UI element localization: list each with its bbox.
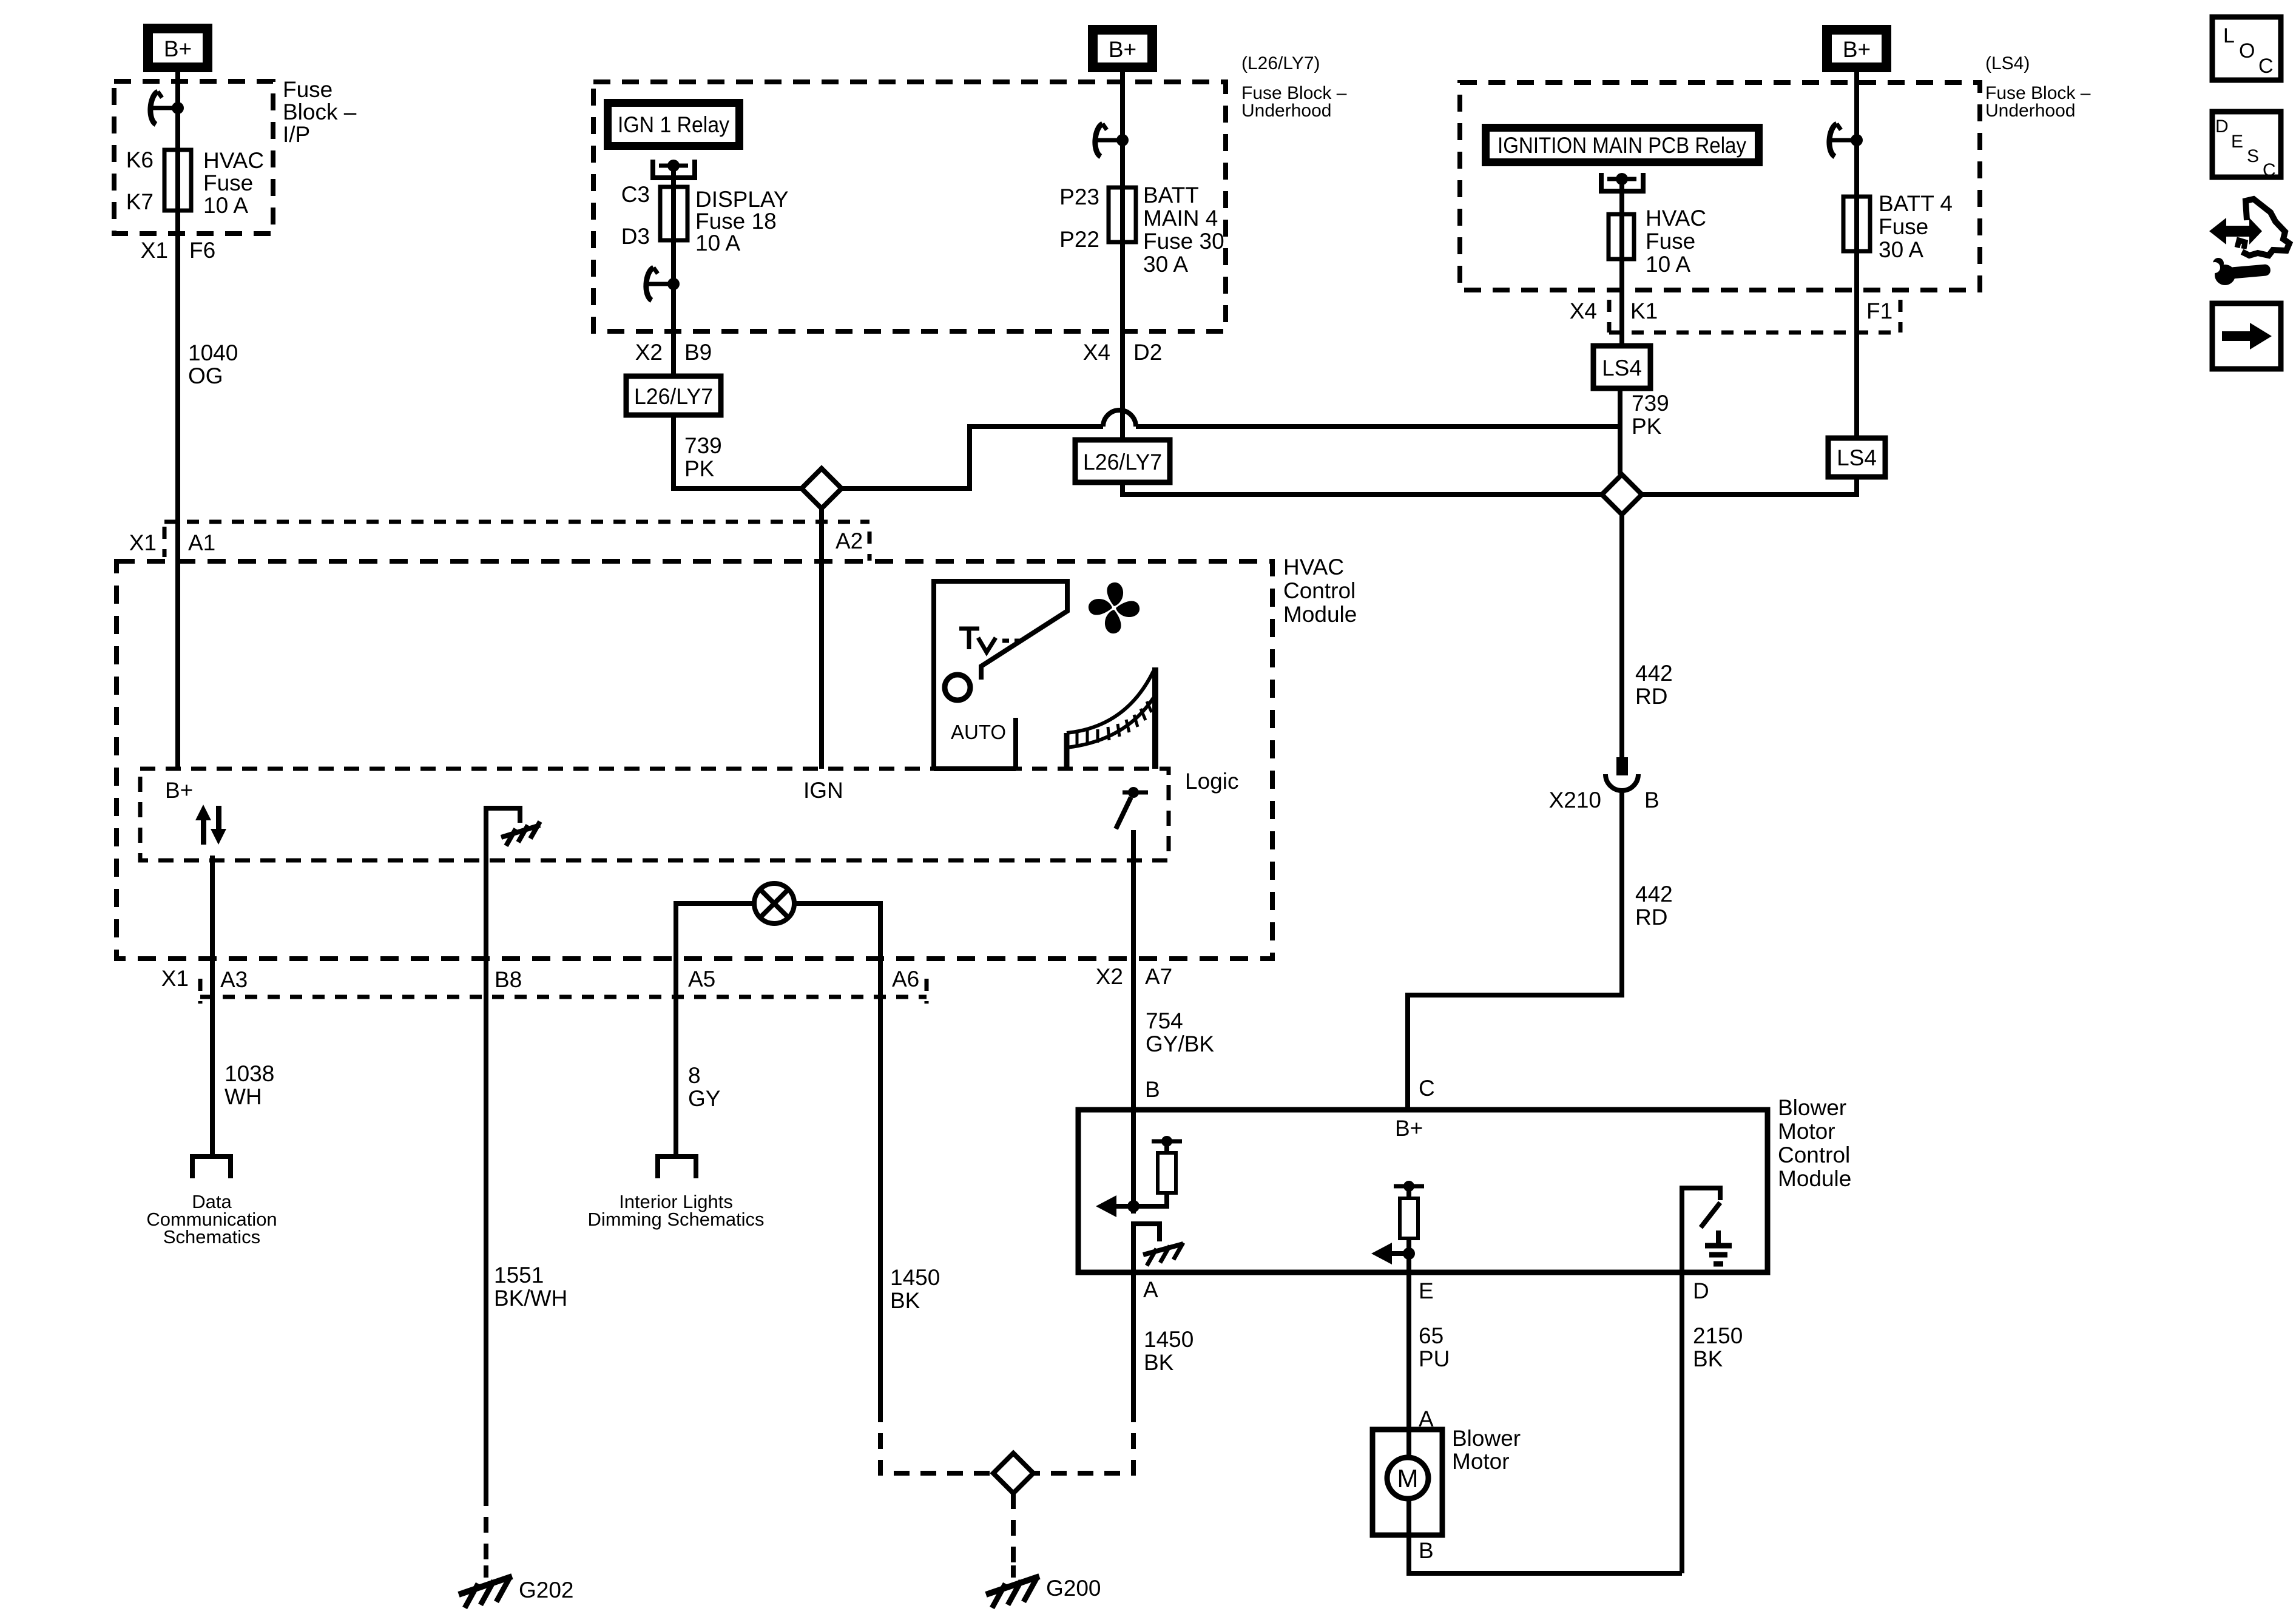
label (L26/LY7) Fuse Block - Underhood: [1241, 53, 1347, 121]
svg-text:L: L: [2223, 24, 2235, 47]
svg-text:A: A: [1143, 1277, 1158, 1302]
svg-text:A2: A2: [836, 528, 863, 553]
svg-text:Fuse: Fuse: [283, 77, 333, 102]
label 8 GY: [688, 1063, 720, 1111]
svg-text:Module: Module: [1778, 1166, 1851, 1191]
svg-text:Logic: Logic: [1185, 769, 1238, 794]
pin E internal: control arrow: [1371, 1243, 1415, 1264]
label 442 RD (lower): [1635, 882, 1673, 930]
label 1450 BK (pin A): [1144, 1327, 1194, 1375]
splice diamond (left): [802, 468, 842, 508]
terminal clip symbol below DISPLAY fuse: [646, 268, 680, 300]
label BATT 4 Fuse 30 A: [1879, 191, 1953, 262]
svg-text:E: E: [1419, 1278, 1434, 1303]
svg-text:1450: 1450: [890, 1265, 940, 1290]
svg-text:(LS4): (LS4): [1985, 53, 2030, 73]
svg-text:BK/WH: BK/WH: [494, 1286, 567, 1311]
fuse block underhood dashed box (LS4): [1460, 83, 1980, 290]
svg-text:Motor: Motor: [1452, 1449, 1510, 1474]
svg-text:A5: A5: [688, 967, 715, 991]
svg-text:D2: D2: [1133, 340, 1162, 365]
label Blower Motor Control Module: [1778, 1095, 1851, 1191]
svg-text:D3: D3: [621, 224, 650, 249]
pin B internal: control arrow: [1096, 1195, 1140, 1217]
HVAC control module dashed box: [116, 561, 1272, 959]
wire B8 dashed segment to ground: [484, 1490, 488, 1565]
svg-text:B+: B+: [1109, 37, 1136, 62]
svg-text:X1: X1: [129, 530, 157, 555]
engine code box LS4 (left, K1 wire): [1593, 346, 1650, 388]
wire A7 logic to module edge: [1131, 830, 1136, 1110]
svg-text:PK: PK: [1632, 414, 1662, 439]
wire B+ right down through BATT 4 fuse (F1): [1854, 72, 1859, 438]
power symbol B+ (left, I/P fuse block): [143, 24, 212, 72]
svg-text:MAIN 4: MAIN 4: [1143, 206, 1218, 231]
backlight lamp circuit wire (A5 side): [676, 903, 755, 959]
relay IGN1 output bracket and contact: [653, 160, 695, 187]
svg-text:B: B: [1644, 788, 1660, 812]
svg-text:1038: 1038: [225, 1061, 274, 1086]
off-page bracket (interior lights): [658, 1156, 696, 1178]
relay PCB output bracket and contact: [1601, 173, 1643, 214]
label HVAC Fuse 10 A (right block): [1646, 206, 1706, 277]
svg-text:A6: A6: [892, 967, 919, 991]
svg-text:X2: X2: [1096, 964, 1123, 989]
svg-text:Control: Control: [1283, 578, 1356, 603]
svg-text:Fuse 18: Fuse 18: [695, 209, 777, 234]
svg-text:G200: G200: [1046, 1576, 1101, 1601]
svg-text:HVAC: HVAC: [1646, 206, 1706, 231]
svg-text:754: 754: [1146, 1008, 1183, 1033]
wire A6 dashed segment to splice: [880, 1406, 993, 1473]
relay IGNITION MAIN PCB Relay (bold box): [1482, 124, 1763, 166]
mode selector pictograph: [934, 581, 1067, 769]
engine code box L26/LY7 (right): [1075, 440, 1170, 482]
svg-text:HVAC: HVAC: [203, 148, 264, 173]
fuse K6/K7 HVAC Fuse 10A: [164, 150, 191, 211]
svg-text:WH: WH: [225, 1084, 262, 1109]
svg-text:10 A: 10 A: [203, 193, 248, 218]
wire pin D down (2150 BK): [1680, 1270, 1684, 1573]
svg-text:GY: GY: [688, 1086, 720, 1111]
svg-text:K7: K7: [126, 189, 154, 214]
pin C internal: B+ feed wire: [1405, 1107, 1410, 1112]
ground jog symbol inside module (B8): [486, 808, 540, 959]
wire 442 RD upper segment: [1619, 515, 1624, 758]
svg-text:B9: B9: [684, 340, 712, 365]
svg-text:IGNITION MAIN PCB Relay: IGNITION MAIN PCB Relay: [1497, 133, 1746, 158]
svg-text:F1: F1: [1866, 299, 1893, 323]
svg-text:Motor: Motor: [1778, 1119, 1835, 1144]
wire A2 splice to IGN input: [819, 508, 824, 769]
label 65 PU: [1419, 1323, 1450, 1371]
terminal clip symbol in I/P fuse block: [150, 92, 184, 124]
pin E internal: control resistor: [1394, 1181, 1424, 1270]
wire hop over D2 wire: [1103, 410, 1136, 427]
svg-text:RD: RD: [1635, 905, 1667, 930]
label 1450 BK (A6): [890, 1265, 940, 1313]
label DISPLAY Fuse 18 10 A: [695, 187, 789, 255]
svg-text:A7: A7: [1145, 964, 1172, 989]
svg-text:PK: PK: [684, 456, 715, 481]
svg-text:X1: X1: [161, 966, 189, 991]
label 754 GY/BK: [1146, 1008, 1214, 1056]
svg-text:1551: 1551: [494, 1263, 544, 1288]
svg-text:PU: PU: [1419, 1346, 1450, 1371]
svg-text:Dimming Schematics: Dimming Schematics: [587, 1209, 764, 1230]
connector label X2 | B9: [635, 340, 712, 365]
svg-text:B+: B+: [1395, 1116, 1423, 1141]
svg-text:BK: BK: [1144, 1350, 1174, 1375]
svg-text:X4: X4: [1570, 299, 1597, 323]
svg-text:65: 65: [1419, 1323, 1443, 1348]
icon LOC box (top right): [2212, 17, 2281, 80]
pin B internal: wire to junction: [1131, 1110, 1136, 1214]
svg-text:739: 739: [1632, 391, 1669, 416]
svg-text:LS4: LS4: [1602, 356, 1642, 380]
engine code box LS4 (right, F1 wire): [1828, 438, 1885, 477]
relay IGN 1 Relay (bold box): [604, 99, 743, 150]
svg-text:10 A: 10 A: [695, 231, 740, 255]
connector labels X4 | K1 and F1: [1570, 299, 1893, 323]
wire A5 to interior lights dimming (8 GY): [674, 959, 678, 1156]
wire splice to step-up run toward K1: [842, 427, 1103, 488]
backlight lamp circuit wire (A6 side): [794, 903, 880, 959]
svg-text:D: D: [1693, 1278, 1709, 1303]
svg-text:2150: 2150: [1693, 1323, 1743, 1348]
svg-text:8: 8: [688, 1063, 701, 1088]
svg-text:L26/LY7: L26/LY7: [634, 384, 713, 409]
svg-text:30 A: 30 A: [1879, 237, 1923, 262]
svg-text:IGN 1 Relay: IGN 1 Relay: [618, 112, 729, 137]
wire blower motor B to pin D return: [1409, 1535, 1682, 1573]
label Fuse Block - I/P: [283, 77, 357, 147]
svg-text:Fuse: Fuse: [203, 170, 253, 195]
svg-text:10 A: 10 A: [1646, 252, 1690, 277]
svg-text:C: C: [2263, 160, 2276, 180]
pin B internal: sense resistor: [1133, 1136, 1182, 1206]
svg-text:RD: RD: [1635, 684, 1667, 709]
blower motor control module box: [1078, 1110, 1768, 1272]
label 2150 BK: [1693, 1323, 1743, 1371]
ground G202: [459, 1565, 512, 1608]
wire A3 to data link (1038 WH): [210, 959, 215, 1156]
wire 442 RD lower segment to pin C: [1408, 791, 1622, 1110]
svg-text:BK: BK: [1693, 1346, 1723, 1371]
svg-text:K1: K1: [1630, 299, 1658, 323]
wire through HVAC fuse to block edge: [1619, 214, 1624, 346]
svg-text:A1: A1: [188, 530, 215, 555]
splice diamond (ground G200): [993, 1453, 1033, 1493]
connector X4 dotted bracket row: [1609, 300, 1900, 333]
svg-text:F6: F6: [189, 238, 215, 263]
wire hop to K1 junction corner: [1136, 388, 1620, 427]
svg-text:Underhood: Underhood: [1241, 101, 1331, 121]
svg-text:HVAC: HVAC: [1283, 555, 1344, 579]
svg-text:C3: C3: [621, 182, 650, 207]
label 442 RD (upper): [1635, 661, 1673, 709]
svg-text:X4: X4: [1083, 340, 1110, 365]
svg-text:BATT: BATT: [1143, 183, 1199, 208]
data bus up/down arrows symbol: [195, 805, 226, 845]
label Blower Motor: [1452, 1426, 1521, 1474]
svg-text:B: B: [1145, 1077, 1160, 1102]
svg-text:C: C: [2258, 55, 2274, 78]
wire from L26/LY7 box to splice (739 PK): [674, 415, 802, 488]
splice diamond (right): [1602, 474, 1642, 515]
backlight lamp symbol: [754, 883, 794, 923]
fuse P23/P22 BATT MAIN 4 Fuse 30 30A: [1109, 187, 1136, 242]
wire through DISPLAY fuse down to clip: [671, 187, 676, 376]
dashed wire from blower module pin A to splice and splice to ground: [1013, 1406, 1133, 1565]
inline connector X210 pin B: [1606, 757, 1638, 791]
wire pin E to blower motor (65 PU): [1406, 1270, 1411, 1430]
svg-text:K6: K6: [126, 147, 154, 172]
svg-text:BATT 4: BATT 4: [1879, 191, 1953, 216]
svg-text:BK: BK: [890, 1288, 920, 1313]
wire A6 to splice (1450 BK): [878, 959, 883, 1406]
svg-text:Fuse: Fuse: [1646, 229, 1695, 254]
connector row X1 / A1 / A2 (dotted): [164, 522, 869, 561]
wire K1 LS4 box to splice diamond right: [1618, 388, 1622, 474]
svg-text:DISPLAY: DISPLAY: [695, 187, 789, 212]
label BATT MAIN 4 Fuse 30 30 A: [1143, 183, 1224, 277]
terminal clip symbol on right B+ wire: [1829, 124, 1863, 157]
label Interior Lights Dimming Schematics: [587, 1191, 764, 1230]
svg-text:B: B: [1419, 1538, 1434, 1563]
svg-text:B8: B8: [495, 967, 522, 992]
icon right-arrow box (top right): [2212, 303, 2281, 369]
svg-text:E: E: [2231, 132, 2243, 152]
svg-text:739: 739: [684, 433, 722, 458]
svg-text:A3: A3: [220, 967, 248, 992]
svg-text:IGN: IGN: [803, 778, 843, 803]
fuse HVAC Fuse 10A (K1): [1609, 214, 1634, 259]
fuse BATT 4 Fuse 30A (F1): [1843, 197, 1870, 251]
svg-text:Blower: Blower: [1778, 1095, 1846, 1120]
wire B8 to ground G202 (1551 BK/WH): [484, 959, 488, 1490]
svg-text:O: O: [2239, 39, 2255, 62]
wire B+ to HVAC control module (1040 OG) vertical: [175, 72, 180, 769]
svg-text:S: S: [2247, 146, 2259, 166]
svg-text:OG: OG: [188, 363, 223, 388]
svg-text:M: M: [1397, 1464, 1419, 1493]
svg-text:442: 442: [1635, 882, 1673, 906]
svg-text:Control: Control: [1778, 1143, 1850, 1167]
internal B+/logic dashed bus box: [140, 769, 1169, 860]
wire 754 GY/BK (A7 to pin B): [1131, 959, 1136, 1110]
icon hand with double arrow and wrench (top right): [2209, 199, 2289, 285]
blower motor box: [1373, 1430, 1442, 1535]
wire F1 LS4 box to splice diamond right: [1642, 477, 1857, 495]
svg-text:I/P: I/P: [283, 122, 310, 147]
svg-text:Fuse 30: Fuse 30: [1143, 229, 1224, 254]
label HVAC Fuse 10 A: [203, 148, 264, 218]
label X210 / B: [1549, 788, 1660, 812]
label HVAC Control Module: [1283, 555, 1357, 627]
svg-text:D: D: [2215, 116, 2229, 137]
engine code box L26/LY7 (left): [626, 376, 721, 415]
svg-text:G202: G202: [519, 1578, 574, 1602]
svg-text:Module: Module: [1283, 602, 1357, 627]
svg-text:Block –: Block –: [283, 100, 357, 124]
svg-text:30 A: 30 A: [1143, 252, 1188, 277]
wire B+ bus to pin A3: [210, 856, 215, 959]
svg-text:P22: P22: [1059, 227, 1099, 252]
pin A internal: switch to chassis ground: [1133, 1224, 1183, 1270]
label 1040 OG: [188, 340, 238, 388]
svg-text:B+: B+: [164, 36, 192, 61]
svg-text:Underhood: Underhood: [1985, 101, 2075, 121]
label Data Communication Schematics: [146, 1191, 277, 1247]
label (LS4) Fuse Block - Underhood: [1985, 53, 2091, 121]
label 1551 BK/WH: [494, 1263, 567, 1311]
svg-text:B+: B+: [165, 778, 193, 803]
temperature dial pictograph: [1067, 667, 1155, 769]
svg-text:L26/LY7: L26/LY7: [1083, 450, 1162, 474]
svg-text:GY/BK: GY/BK: [1146, 1031, 1214, 1056]
svg-text:X210: X210: [1549, 788, 1601, 812]
ground G200: [986, 1565, 1039, 1608]
svg-text:(L26/LY7): (L26/LY7): [1241, 53, 1320, 73]
svg-text:LS4: LS4: [1837, 445, 1877, 470]
fuse block underhood dashed box (L26/LY7): [593, 82, 1226, 331]
label 739 PK (right): [1632, 391, 1669, 439]
svg-text:442: 442: [1635, 661, 1673, 686]
label 739 PK (left): [684, 433, 722, 481]
power symbol B+ (right): [1822, 25, 1891, 72]
icon DESC box (top right): [2212, 112, 2281, 180]
label X2 | A7: [1096, 964, 1173, 989]
label 1038 WH: [225, 1061, 274, 1109]
fuse C3/D3 DISPLAY Fuse 18 10A: [660, 187, 687, 240]
terminal clip symbol on middle B+ wire: [1095, 124, 1129, 157]
svg-text:1450: 1450: [1144, 1327, 1194, 1352]
fan pictograph: [1089, 582, 1140, 633]
svg-text:1040: 1040: [188, 340, 238, 365]
fuse block I/P dashed box: [114, 81, 273, 234]
svg-text:C: C: [1419, 1076, 1435, 1101]
svg-text:X1: X1: [141, 238, 168, 263]
connector label X4 | D2: [1083, 340, 1163, 365]
motor M symbol: [1387, 1430, 1428, 1535]
svg-text:X2: X2: [635, 340, 663, 365]
svg-text:B+: B+: [1843, 37, 1871, 62]
svg-text:P23: P23: [1059, 184, 1099, 209]
svg-text:Schematics: Schematics: [163, 1226, 260, 1247]
wire B+ middle down through BATT MAIN 4 fuse (D2): [1120, 72, 1125, 440]
connector label X1 | F6: [141, 238, 215, 263]
off-page bracket (data communication): [192, 1156, 231, 1178]
connector row X1 / A3 / B8 / A5 / A6 (dotted): [200, 979, 927, 1004]
pin D internal: switch to earth ground: [1682, 1188, 1732, 1270]
logic output switch (A7): [1116, 787, 1148, 829]
svg-text:Blower: Blower: [1452, 1426, 1521, 1451]
svg-text:AUTO: AUTO: [951, 721, 1006, 743]
power symbol B+ (middle): [1088, 25, 1157, 72]
svg-text:Fuse: Fuse: [1879, 214, 1928, 239]
wire L26/LY7 right box to splice diamond right: [1123, 482, 1602, 495]
wire pin A down (1450 BK): [1131, 1270, 1136, 1406]
